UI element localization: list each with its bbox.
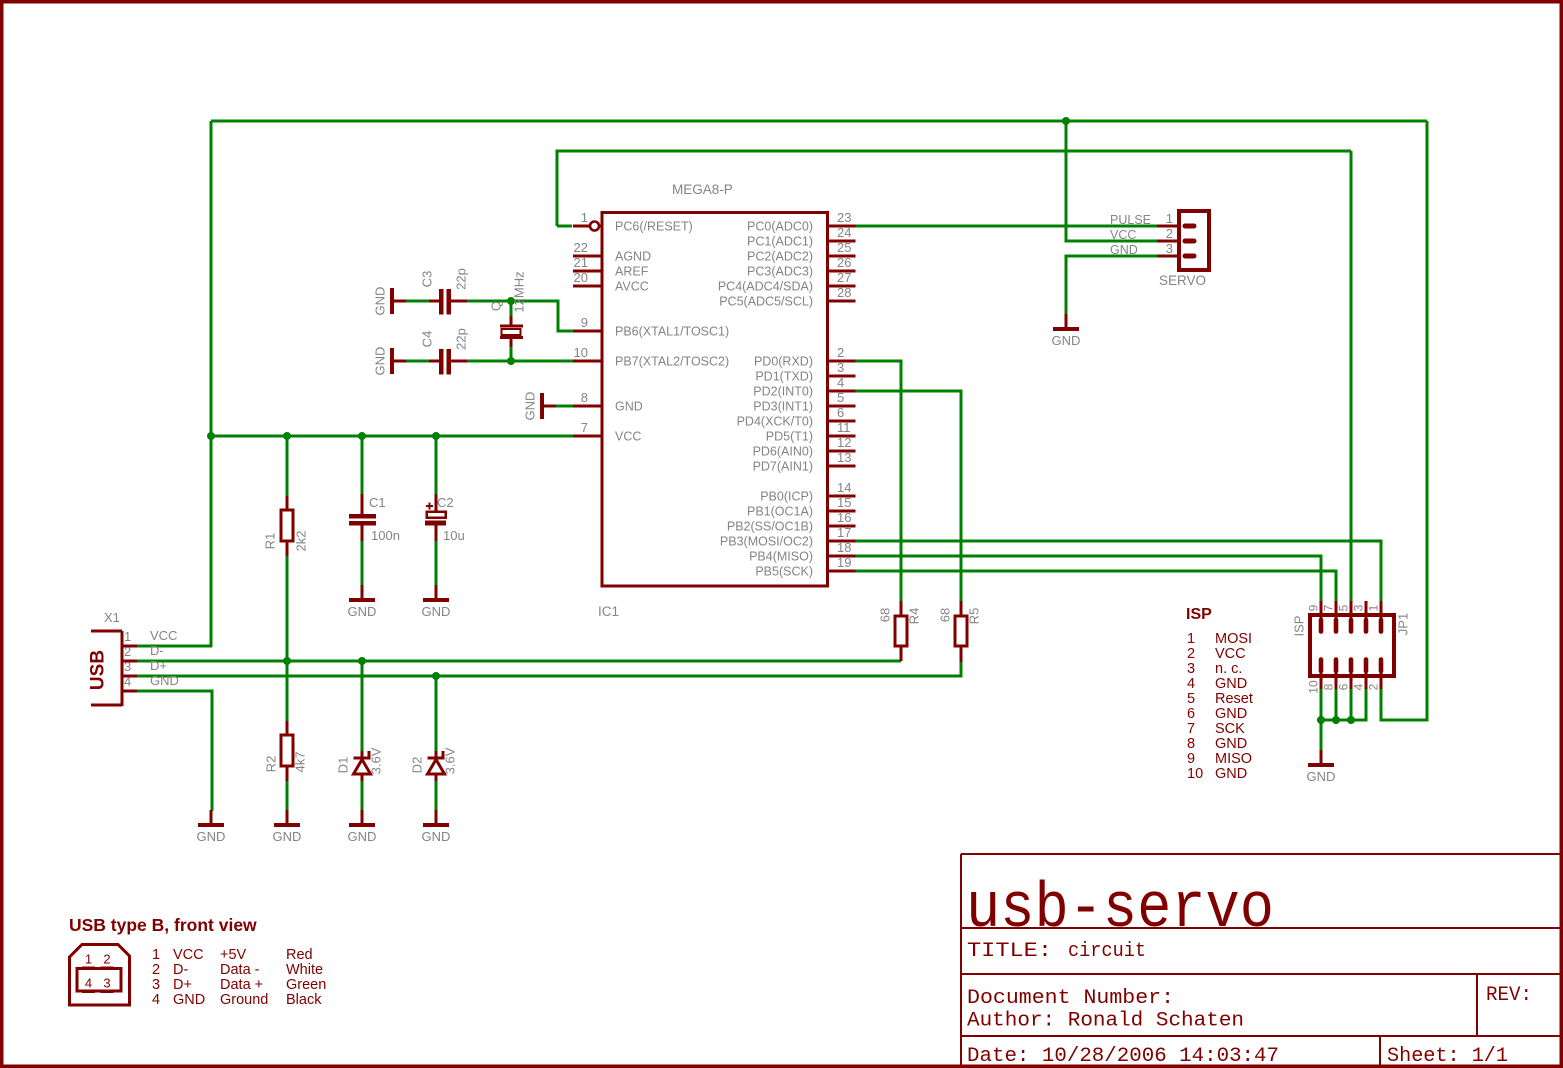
wire VCC left vertical to USB pin1 — [210, 121, 213, 647]
junction XTAL2 — [507, 357, 515, 365]
svg-text:4: 4 — [1352, 683, 1366, 690]
wire XTAL1 junction to crystal — [510, 301, 513, 316]
svg-text:D2: D2 — [410, 757, 425, 774]
junction VCC / left vertical — [207, 432, 215, 440]
wire PC0 to SERVO pin1 PULSE — [855, 225, 1157, 228]
JP1 bottom pin numbers 10 8 6 4 2 — [1307, 680, 1381, 694]
svg-text:GND: GND — [523, 392, 538, 421]
resistor R2 — [281, 721, 293, 781]
svg-text:Data +: Data + — [220, 977, 263, 993]
svg-text:GND: GND — [197, 829, 226, 844]
junction VCC / R1 — [283, 432, 291, 440]
wire SCK IC pin19 to ISP pin7 — [855, 571, 1336, 601]
wire ISP ground bus drop to GND — [1320, 720, 1323, 751]
svg-text:6: 6 — [1187, 706, 1195, 722]
svg-text:n. c.: n. c. — [1215, 661, 1242, 677]
svg-text:3.6V: 3.6V — [443, 747, 458, 774]
svg-text:Green: Green — [286, 977, 326, 993]
svg-text:3: 3 — [152, 977, 160, 993]
svg-text:PB5(SCK): PB5(SCK) — [755, 565, 813, 579]
capacitor C2 polarized — [425, 494, 446, 541]
wire D1 top from D- line — [361, 661, 364, 751]
svg-text:Author: Ronald Schaten: Author: Ronald Schaten — [967, 1010, 1244, 1033]
svg-text:22p: 22p — [454, 328, 469, 350]
svg-text:AVCC: AVCC — [615, 280, 649, 294]
svg-text:10: 10 — [1307, 680, 1321, 694]
svg-text:AGND: AGND — [615, 250, 651, 264]
svg-text:6: 6 — [837, 405, 844, 420]
svg-text:circuit: circuit — [1068, 940, 1146, 963]
junction VCC / C1 — [358, 432, 366, 440]
svg-text:D-: D- — [150, 643, 164, 658]
svg-text:PULSE: PULSE — [1110, 213, 1151, 227]
junction ISP bus pin8 — [1332, 716, 1340, 724]
svg-text:GND: GND — [373, 287, 388, 316]
svg-text:5: 5 — [837, 390, 844, 405]
diode D1 zener — [354, 751, 371, 781]
svg-text:Ground: Ground — [220, 992, 268, 1008]
svg-text:D-: D- — [173, 962, 188, 978]
svg-text:7: 7 — [1322, 604, 1336, 611]
USB drawing pin numbers — [85, 952, 111, 991]
svg-text:TITLE:: TITLE: — [967, 940, 1052, 963]
junction VCC rail / servo feed — [1062, 117, 1070, 125]
ground servo — [1065, 314, 1068, 329]
svg-text:8: 8 — [581, 390, 588, 405]
svg-text:MOSI: MOSI — [1215, 631, 1252, 647]
ground below R2 — [286, 810, 289, 825]
svg-text:22: 22 — [574, 240, 588, 255]
svg-text:2: 2 — [1166, 226, 1173, 241]
svg-text:GND: GND — [1215, 766, 1247, 782]
svg-text:2: 2 — [1187, 646, 1195, 662]
svg-text:GND: GND — [373, 347, 388, 376]
wire MISO IC pin18 to ISP pin9 — [855, 556, 1321, 601]
svg-text:4: 4 — [1187, 676, 1195, 692]
resistor R4 — [895, 601, 907, 661]
svg-text:C4: C4 — [420, 331, 435, 348]
svg-text:PD7(AIN1): PD7(AIN1) — [753, 460, 813, 474]
svg-text:68: 68 — [878, 608, 893, 622]
connector JP1 ISP header — [1310, 601, 1394, 689]
wire VCC drop to C1 — [361, 436, 364, 494]
wire MOSI IC pin17 to ISP pin1 — [855, 541, 1381, 601]
svg-text:4: 4 — [124, 674, 131, 689]
resistor R1 — [281, 496, 293, 556]
svg-text:1: 1 — [124, 629, 131, 644]
svg-text:3: 3 — [124, 659, 131, 674]
IC1 right pin numbers — [837, 210, 851, 570]
svg-text:D+: D+ — [150, 658, 167, 673]
svg-text:PD3(INT1): PD3(INT1) — [753, 400, 813, 414]
svg-text:GND: GND — [1215, 676, 1247, 692]
svg-text:PC3(ADC3): PC3(ADC3) — [747, 265, 813, 279]
ground below D1 — [361, 810, 364, 825]
junction ISP bus pin6 — [1347, 716, 1355, 724]
svg-text:2: 2 — [124, 644, 131, 659]
svg-text:2: 2 — [837, 345, 844, 360]
svg-text:1: 1 — [1187, 631, 1195, 647]
USB type B connector drawing — [70, 945, 130, 1006]
svg-text:9: 9 — [1307, 604, 1321, 611]
svg-text:GND: GND — [615, 400, 643, 414]
svg-text:4: 4 — [837, 375, 844, 390]
svg-text:24: 24 — [837, 225, 851, 240]
wire VCC branch to IC pin7 — [211, 435, 573, 438]
ground ISP — [1320, 750, 1323, 765]
svg-text:VCC: VCC — [173, 947, 204, 963]
svg-text:22p: 22p — [454, 268, 469, 290]
svg-text:3: 3 — [1166, 241, 1173, 256]
svg-text:PC5(ADC5/SCL): PC5(ADC5/SCL) — [719, 295, 813, 309]
wire VCC right vertical to ISP pin2 — [1381, 121, 1427, 720]
wire VCC top rail — [211, 120, 1427, 123]
svg-text:GND: GND — [1215, 706, 1247, 722]
svg-text:13: 13 — [837, 450, 851, 465]
wire PD2 to R5 top — [855, 391, 961, 601]
svg-text:PD6(AIN0): PD6(AIN0) — [753, 445, 813, 459]
title block TITLE row — [967, 940, 1146, 963]
svg-text:Data -: Data - — [220, 962, 260, 978]
svg-text:PD5(T1): PD5(T1) — [766, 430, 813, 444]
svg-text:GND: GND — [173, 992, 205, 1008]
svg-text:PB0(ICP): PB0(ICP) — [760, 490, 813, 504]
USB legend table — [152, 947, 326, 1008]
wire PD0 to R4 top — [855, 361, 901, 601]
svg-text:PB3(MOSI/OC2): PB3(MOSI/OC2) — [720, 535, 813, 549]
wire ISP pin8 to ground bus — [1335, 689, 1338, 720]
svg-text:MISO: MISO — [1215, 751, 1252, 767]
svg-text:D+: D+ — [173, 977, 192, 993]
crystal Q — [500, 316, 523, 347]
wire RESET to IC pin1 — [557, 225, 572, 228]
svg-text:C1: C1 — [369, 495, 386, 510]
JP1 top pin numbers 9 7 5 3 1 — [1307, 604, 1381, 611]
junction XTAL1 — [507, 297, 515, 305]
svg-text:19: 19 — [837, 555, 851, 570]
svg-text:VCC: VCC — [615, 430, 641, 444]
svg-text:7: 7 — [1187, 721, 1195, 737]
svg-text:Sheet: 1/1: Sheet: 1/1 — [1387, 1045, 1508, 1068]
svg-text:18: 18 — [837, 540, 851, 555]
X1 pin numbers — [124, 629, 131, 689]
wire USB VCC pin1 horizontal — [136, 645, 212, 648]
svg-text:GND: GND — [422, 829, 451, 844]
svg-text:3: 3 — [1352, 604, 1366, 611]
wire RESET drop to ISP pin5 — [1350, 151, 1353, 601]
ground at IC pin8 rotated — [542, 405, 556, 408]
svg-text:25: 25 — [837, 240, 851, 255]
wire GND to IC pin8 — [556, 405, 573, 408]
svg-text:C2: C2 — [437, 495, 454, 510]
svg-text:2k2: 2k2 — [294, 531, 309, 552]
junction ISP bus pin10 — [1317, 716, 1325, 724]
svg-text:5: 5 — [1337, 604, 1351, 611]
ground below C1 — [361, 585, 364, 600]
svg-text:USB: USB — [88, 650, 109, 690]
svg-text:10: 10 — [574, 345, 588, 360]
IC1 MEGA8-P microcontroller — [573, 213, 856, 587]
svg-text:23: 23 — [837, 210, 851, 225]
svg-text:SERVO: SERVO — [1159, 273, 1206, 288]
svg-text:R5: R5 — [967, 608, 982, 625]
svg-text:1: 1 — [1166, 211, 1173, 226]
svg-text:2: 2 — [152, 962, 160, 978]
ground at C4 rotated — [392, 360, 406, 363]
svg-text:GND: GND — [1110, 243, 1138, 257]
svg-text:PC2(ADC2): PC2(ADC2) — [747, 250, 813, 264]
svg-text:9: 9 — [581, 315, 588, 330]
svg-text:PB4(MISO): PB4(MISO) — [749, 550, 813, 564]
svg-text:X1: X1 — [104, 610, 120, 625]
wire R2 bottom to GND — [286, 766, 289, 811]
svg-text:VCC: VCC — [1215, 646, 1246, 662]
X1 pin names — [150, 628, 179, 688]
svg-text:GND: GND — [273, 829, 302, 844]
junction D+ / D2 — [432, 672, 440, 680]
svg-text:PC0(ADC0): PC0(ADC0) — [747, 220, 813, 234]
svg-text:1: 1 — [85, 952, 92, 967]
svg-text:R2: R2 — [264, 756, 279, 773]
svg-text:VCC: VCC — [150, 628, 177, 643]
ground at C3 rotated — [392, 300, 406, 303]
svg-text:1: 1 — [1367, 604, 1381, 611]
wire VCC drop to R1 — [286, 436, 289, 496]
wire USB pin4 to GND — [136, 691, 212, 811]
svg-text:9: 9 — [1187, 751, 1195, 767]
IC1 left pin numbers — [574, 210, 588, 435]
svg-text:27: 27 — [837, 270, 851, 285]
svg-text:11: 11 — [837, 420, 851, 435]
svg-text:GND: GND — [150, 673, 179, 688]
svg-text:PD4(XCK/T0): PD4(XCK/T0) — [737, 415, 813, 429]
svg-text:4: 4 — [85, 976, 92, 991]
svg-text:R1: R1 — [263, 533, 278, 550]
title block document number row — [967, 987, 1244, 1033]
svg-text:6: 6 — [1337, 683, 1351, 690]
svg-text:20: 20 — [574, 270, 588, 285]
capacitor C1 — [349, 494, 376, 541]
wire D+ line USB pin3 to R5 — [136, 661, 961, 676]
svg-text:IC1: IC1 — [598, 604, 619, 619]
svg-text:ISP: ISP — [1186, 606, 1212, 623]
svg-text:3: 3 — [1187, 661, 1195, 677]
svg-text:GND: GND — [422, 604, 451, 619]
ground below C2 — [435, 585, 438, 600]
wire D1 bottom to GND — [361, 774, 364, 811]
svg-text:GND: GND — [348, 829, 377, 844]
svg-text:15: 15 — [837, 495, 851, 510]
svg-text:Date: 10/28/2006 14:03:47: Date: 10/28/2006 14:03:47 — [967, 1045, 1279, 1068]
svg-text:PB2(SS/OC1B): PB2(SS/OC1B) — [727, 520, 813, 534]
svg-text:PD1(TXD): PD1(TXD) — [755, 370, 813, 384]
svg-text:12: 12 — [837, 435, 851, 450]
svg-text:PD0(RXD): PD0(RXD) — [754, 355, 813, 369]
svg-text:68: 68 — [938, 608, 953, 622]
svg-text:8: 8 — [1322, 683, 1336, 690]
junction VCC / C2 — [432, 432, 440, 440]
svg-text:Reset: Reset — [1215, 691, 1253, 707]
wire VCC to SERVO pin2 — [1066, 121, 1157, 241]
wire R2 top from D- line — [286, 661, 289, 721]
svg-text:4k7: 4k7 — [293, 752, 308, 773]
capacitor C4 — [429, 349, 467, 375]
svg-text:Black: Black — [286, 992, 322, 1008]
svg-text:Document Number:: Document Number: — [967, 987, 1174, 1010]
wire XTAL2 C4 to IC pin10 — [467, 360, 573, 363]
svg-text:PB6(XTAL1/TOSC1): PB6(XTAL1/TOSC1) — [615, 325, 729, 339]
svg-text:VCC: VCC — [1110, 228, 1136, 242]
svg-text:7: 7 — [581, 420, 588, 435]
svg-text:REV:: REV: — [1486, 984, 1532, 1007]
wire XTAL1 C3 to junction — [467, 300, 511, 303]
svg-text:28: 28 — [837, 285, 851, 300]
svg-text:10u: 10u — [443, 528, 465, 543]
wire VCC drop to C2 — [435, 436, 438, 494]
svg-text:White: White — [286, 962, 323, 978]
svg-text:10: 10 — [1187, 766, 1203, 782]
title block frame — [961, 854, 1560, 1065]
svg-text:Red: Red — [286, 947, 313, 963]
svg-text:USB type B, front view: USB type B, front view — [69, 915, 257, 935]
svg-text:2: 2 — [1367, 683, 1381, 690]
ground below USB — [210, 810, 213, 825]
svg-text:C3: C3 — [420, 271, 435, 288]
svg-text:+5V: +5V — [220, 947, 247, 963]
svg-text:PC6(/RESET): PC6(/RESET) — [615, 220, 693, 234]
wire R1 bottom to D- line — [286, 541, 289, 661]
svg-text:14: 14 — [837, 480, 851, 495]
wire RESET rail — [557, 151, 1351, 226]
svg-text:3.6V: 3.6V — [369, 747, 384, 774]
svg-text:3: 3 — [837, 360, 844, 375]
svg-text:PB1(OC1A): PB1(OC1A) — [747, 505, 813, 519]
svg-text:PC4(ADC4/SDA): PC4(ADC4/SDA) — [718, 280, 813, 294]
IC1 right pin names — [718, 220, 813, 579]
resistor R5 — [955, 601, 967, 662]
IC1 left pin names — [615, 220, 729, 444]
svg-text:ISP: ISP — [1292, 616, 1307, 637]
ground below D2 — [435, 810, 438, 825]
SERVO pin numbers — [1166, 211, 1173, 256]
wire C3 left to ground — [406, 300, 430, 303]
svg-text:usb-servo: usb-servo — [966, 874, 1274, 946]
wire D2 bottom to GND — [435, 774, 438, 811]
svg-text:8: 8 — [1187, 736, 1195, 752]
svg-text:21: 21 — [574, 255, 588, 270]
connector X1 USB — [91, 631, 137, 706]
svg-text:GND: GND — [1215, 736, 1247, 752]
svg-text:Q: Q — [489, 301, 504, 311]
junction D- / D1 — [358, 657, 366, 665]
svg-text:PB7(XTAL2/TOSC2): PB7(XTAL2/TOSC2) — [615, 355, 729, 369]
svg-text:GND: GND — [348, 604, 377, 619]
svg-text:JP1: JP1 — [1396, 613, 1411, 635]
svg-text:GND: GND — [1052, 333, 1081, 348]
svg-text:17: 17 — [837, 525, 851, 540]
svg-text:4: 4 — [152, 992, 160, 1008]
svg-text:12MHz: 12MHz — [512, 271, 527, 312]
wire C1 bottom to GND — [361, 525, 364, 586]
svg-text:3: 3 — [103, 976, 110, 991]
svg-text:5: 5 — [1187, 691, 1195, 707]
svg-text:GND: GND — [1307, 769, 1336, 784]
svg-text:MEGA8-P: MEGA8-P — [672, 182, 733, 197]
capacitor C3 — [429, 289, 467, 315]
svg-text:D1: D1 — [336, 757, 351, 774]
diode D2 zener — [428, 751, 445, 781]
wire XTAL2 crystal to junction — [510, 347, 513, 361]
svg-text:1: 1 — [152, 947, 160, 963]
ISP legend table — [1187, 631, 1253, 782]
svg-text:R4: R4 — [907, 608, 922, 625]
svg-text:AREF: AREF — [615, 265, 649, 279]
junction D- / R1 R2 — [283, 657, 291, 665]
connector SERVO — [1157, 211, 1209, 270]
wire D2 top from D+ line — [435, 676, 438, 751]
svg-text:16: 16 — [837, 510, 851, 525]
svg-text:2: 2 — [103, 952, 110, 967]
wire C2 bottom to GND — [435, 525, 438, 586]
svg-text:26: 26 — [837, 255, 851, 270]
wire D- line USB pin2 to R4 — [136, 660, 901, 663]
wire ISP pin6 to ground bus — [1350, 689, 1353, 720]
svg-text:PD2(INT0): PD2(INT0) — [753, 385, 813, 399]
svg-text:SCK: SCK — [1215, 721, 1245, 737]
svg-text:100n: 100n — [371, 528, 400, 543]
wire C4 left to ground — [406, 360, 430, 363]
wire SERVO pin3 to GND — [1066, 256, 1157, 314]
wire XTAL1 junction to IC pin9 — [511, 301, 573, 331]
wire ISP ground bus — [1321, 689, 1366, 720]
svg-text:1: 1 — [581, 210, 588, 225]
svg-text:PC1(ADC1): PC1(ADC1) — [747, 235, 813, 249]
